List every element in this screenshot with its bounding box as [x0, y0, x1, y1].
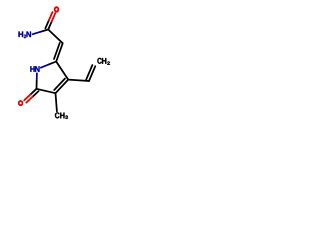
lactam C2=O double bond, black half [30, 89, 38, 97]
lactam O label [18, 100, 24, 106]
vinyl CH2 letter H [102, 58, 106, 64]
ring C3=C4 double bond [54, 79, 68, 94]
amide NH2 subscript 2 [24, 35, 26, 38]
ring C5-N bond, black half [49, 62, 57, 65]
ring C5-N bond, blue half [41, 65, 49, 68]
methyl CH3 letter C [55, 112, 60, 118]
methyl CH3 letter H [60, 113, 64, 119]
exocyclic C=C double bond (methine to ring C5) [54, 43, 63, 62]
ring N-C2 bond, blue half [36, 73, 38, 81]
ring C5-C4 bond [56, 62, 68, 80]
amide C-N bond, black half [40, 30, 48, 32]
vinyl CH2 letter C [97, 58, 101, 64]
methyl CH3 subscript 3 [65, 116, 68, 119]
vinyl CH2 subscript 2 [107, 62, 110, 65]
amide C-N bond, blue half [33, 32, 41, 34]
amide NH2 letter N [27, 32, 32, 38]
ring N-C2 bond, black half [36, 81, 38, 89]
bond amide C to methine CH [48, 30, 63, 44]
amide C=O double bond, red half [49, 12, 55, 21]
ring NH letter H [30, 66, 34, 72]
bond C3 to methyl [56, 93, 57, 111]
vinyl C=CH2 double bond [86, 65, 95, 81]
ring NH letter N [35, 66, 39, 72]
amide O label [54, 6, 60, 12]
ring C2-C3 bond [37, 89, 56, 93]
bond C4 to vinyl CH [68, 80, 89, 81]
amide NH2 letter H [19, 32, 24, 38]
amide C=O double bond, black half [45, 20, 51, 29]
lactam C2=O double bond, red half [24, 95, 32, 103]
